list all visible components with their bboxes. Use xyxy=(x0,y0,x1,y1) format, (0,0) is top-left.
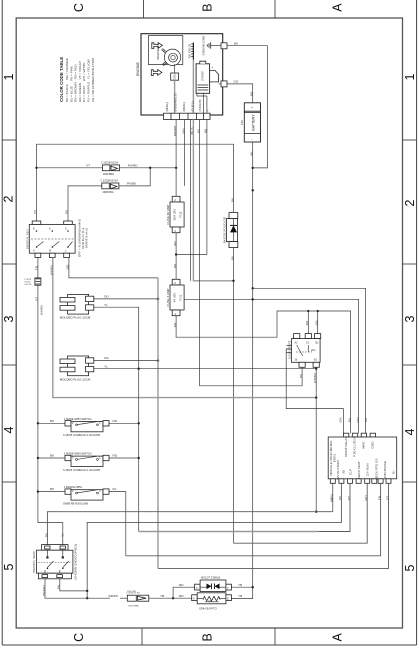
engine drop wire MAG gray to diode corner xyxy=(190,120,233,281)
svg-text:4: 4 xyxy=(2,426,16,433)
svg-text:RD: RD xyxy=(179,594,184,598)
svg-text:5: 5 xyxy=(403,564,417,571)
module pin5 drop to y543.2 line to PTO pin1 xyxy=(234,483,369,543)
svg-text:S 284 B OUABUAO 2 HOLIVAB: S 284 B OUABUAO 2 HOLIVAB xyxy=(63,433,100,437)
svg-text:FU2: FU2 xyxy=(179,211,183,217)
wire VT from key to fuse link 1 xyxy=(37,163,103,167)
svg-text:G: G xyxy=(33,250,35,253)
svg-text:OD4 Y8RD: OD4 Y8RD xyxy=(128,606,139,608)
fuse link connector 2 xyxy=(101,179,119,194)
svg-text:B+: B+ xyxy=(392,470,396,474)
svg-text:C 3222B-NC/S4: C 3222B-NC/S4 xyxy=(101,179,119,182)
seat bottom pin3 wire to bottom harness xyxy=(42,579,110,598)
svg-text:BU: BU xyxy=(299,374,303,378)
svg-text:A: A xyxy=(330,632,344,641)
svg-text:NECK PTO GS: NECK PTO GS xyxy=(374,458,378,479)
svg-text:(SHOWN UNOCCUPIED): (SHOWN UNOCCUPIED) xyxy=(73,544,77,580)
svg-text:BK S: BK S xyxy=(190,127,194,134)
wire BK bus to module top pin 4 xyxy=(253,288,366,433)
plug2 YL wire junction to bus 138.7 xyxy=(94,364,318,370)
block arrow top xyxy=(152,43,163,49)
interlock switch SW3 xyxy=(38,485,126,556)
svg-text:RD: RD xyxy=(173,322,177,327)
svg-text:YB: YB xyxy=(238,583,242,587)
wire fuse2 bottom to PTO switch top pins via arch xyxy=(173,310,351,433)
svg-text:(MAG): (MAG) xyxy=(165,102,169,111)
fuse F2 4A xyxy=(166,279,184,316)
svg-text:12V: 12V xyxy=(240,119,244,125)
wire comb down (gray) xyxy=(192,60,194,114)
svg-text:SWITCH, SEAT: SWITCH, SEAT xyxy=(32,551,36,573)
svg-text:SW88 RB R2VOLINB: SW88 RB R2VOLINB xyxy=(63,502,88,506)
bus 138.7 down to nested line xyxy=(138,369,140,532)
seat switch top wire labels xyxy=(44,532,64,537)
svg-text:WH/BU: WH/BU xyxy=(50,265,54,275)
wire fuse2 side to module top pin 1 xyxy=(184,298,359,433)
svg-text:C: C xyxy=(72,3,86,12)
color code table xyxy=(59,57,95,102)
svg-text:MOLDED PLUG 12CM: MOLDED PLUG 12CM xyxy=(60,316,91,320)
svg-text:START B+A+S: START B+A+S xyxy=(85,228,89,248)
svg-text:(START): (START) xyxy=(198,100,202,112)
svg-text:A: A xyxy=(330,3,344,12)
svg-text:1 BRAKE N854: 1 BRAKE N854 xyxy=(64,485,82,489)
svg-text:TN: TN xyxy=(377,496,381,500)
svg-text:ENGINE: ENGINE xyxy=(136,62,140,76)
svg-text:W: W xyxy=(61,533,65,536)
svg-text:(REG/RECT): (REG/RECT) xyxy=(174,93,178,111)
plug1 OG wire to gray bus xyxy=(94,295,158,299)
svg-text:C 3270 VT 84: C 3270 VT 84 xyxy=(126,593,140,595)
svg-text:PK/BK: PK/BK xyxy=(127,182,137,186)
svg-text:M: M xyxy=(49,250,51,253)
svg-text:(S) = NO CONNECTION 2Y8Z8: (S) = NO CONNECTION 2Y8Z8 xyxy=(91,58,95,102)
svg-text:CLP: CLP xyxy=(349,469,353,475)
svg-text:WH: WH xyxy=(356,417,360,422)
wire OG from key bottom to gray bus 158 xyxy=(66,258,158,278)
battery xyxy=(240,103,260,142)
svg-text:NECK SEAT: NECK SEAT xyxy=(357,461,361,478)
module pin3 drop to y531.5 line to bus 138.7 xyxy=(139,483,351,531)
svg-text:RD: RD xyxy=(113,454,118,458)
bottom harness wire RD/PK with connector xyxy=(109,591,175,608)
module box xyxy=(328,433,397,483)
svg-text:MOLDED PLUG 12CM: MOLDED PLUG 12CM xyxy=(60,377,91,381)
svg-text:MOLDT 3'280LB: MOLDT 3'280LB xyxy=(201,576,220,580)
svg-text:12V RUN: 12V RUN xyxy=(366,463,370,476)
svg-text:1 MADE N854 SWITCH: 1 MADE N854 SWITCH xyxy=(64,452,92,456)
svg-text:FU1: FU1 xyxy=(179,294,183,300)
svg-text:V: V xyxy=(193,597,195,601)
svg-text:WH/BU: WH/BU xyxy=(313,373,317,383)
svg-text:GND BRAKE: GND BRAKE xyxy=(383,461,387,479)
fuse link connector 1 xyxy=(101,161,120,176)
svg-text:(MAG): (MAG) xyxy=(182,102,186,111)
svg-text:WH: WH xyxy=(181,128,185,133)
key switch xyxy=(25,221,75,258)
svg-text:12V IN START: 12V IN START xyxy=(336,460,340,480)
solenoid coil xyxy=(192,593,232,611)
engine bottom connector strip xyxy=(164,113,211,119)
svg-text:ENGINE GND: ENGINE GND xyxy=(202,35,206,55)
svg-text:2: 2 xyxy=(403,199,417,206)
svg-text:RL: RL xyxy=(113,487,117,491)
interlock switch SW1 xyxy=(38,417,139,437)
svg-text:VT: VT xyxy=(33,210,37,214)
svg-text:RD/PK: RD/PK xyxy=(109,594,119,598)
plug1 YL wire to bus 138.7 xyxy=(94,303,139,369)
engine drop wire RD to fuse jog xyxy=(204,120,208,255)
svg-text:VT: VT xyxy=(385,496,389,500)
svg-text:OD4/YB 8 PTO: OD4/YB 8 PTO xyxy=(199,606,217,610)
svg-text:START: START xyxy=(201,71,205,81)
wire TN from key bottom via inline connector to interlock bus xyxy=(35,258,63,545)
svg-text:E: E xyxy=(227,597,229,601)
ignition coil box xyxy=(171,73,179,81)
engine drop wire RD/WH to fuse 1 xyxy=(173,120,177,197)
plug2 OG wire to gray bus xyxy=(94,356,158,360)
svg-text:RD: RD xyxy=(173,263,177,268)
svg-text:WH/BU: WH/BU xyxy=(40,305,44,315)
svg-text:+: + xyxy=(251,106,253,110)
solenoid left feed wires xyxy=(173,583,195,598)
svg-text:OG: OG xyxy=(104,295,109,299)
svg-text:Y: Y xyxy=(227,586,229,590)
svg-text:VT: VT xyxy=(35,297,39,301)
flywheel circles xyxy=(164,49,180,65)
fuse F1 30A xyxy=(166,196,184,233)
module pin7 drop to y555.8 line to SW3 xyxy=(126,483,382,556)
wire fuse link 2 to WH line xyxy=(119,167,151,186)
svg-text:RD: RD xyxy=(173,241,177,246)
svg-text:RD: RD xyxy=(249,91,253,96)
svg-text:BK/WH: BK/WH xyxy=(42,585,46,595)
svg-text:BU: BU xyxy=(347,418,351,422)
svg-text:RD: RD xyxy=(305,320,309,325)
PTO bottom pin1 wire label xyxy=(299,374,303,378)
block arrow bottom xyxy=(151,70,162,76)
svg-text:S 284 B OUABUAO 2 HOLIVAB: S 284 B OUABUAO 2 HOLIVAB xyxy=(63,468,100,472)
wire diode bottom to PTO arch xyxy=(230,248,234,544)
starter wire inside engine xyxy=(203,93,205,113)
svg-text:PK/RD: PK/RD xyxy=(128,163,138,167)
PTO start switch xyxy=(286,334,343,434)
svg-text:ODC 8L: ODC 8L xyxy=(25,284,33,286)
svg-text:MAG: MAG xyxy=(362,441,366,449)
svg-text:C 3222B-NC/S4: C 3222B-NC/S4 xyxy=(101,161,119,164)
svg-text:5: 5 xyxy=(2,563,16,570)
svg-text:RD/WH: RD/WH xyxy=(173,126,177,136)
molded plug 1 xyxy=(60,294,94,319)
molded plug 2 xyxy=(60,356,94,381)
svg-text:[A1]: [A1] xyxy=(311,349,316,352)
wire coil to engine connector xyxy=(174,64,176,73)
svg-text:RD: RD xyxy=(179,583,184,587)
gray bus 158 vertical xyxy=(157,278,160,569)
wire key switch to diode module top (BK loop) xyxy=(33,144,234,221)
svg-text:BATTERY: BATTERY xyxy=(251,114,255,131)
engine ground symbol xyxy=(202,35,217,55)
engine drop wire BU to module top pin xyxy=(196,120,302,386)
svg-text:GY: GY xyxy=(347,496,351,500)
interlock switch SW2 xyxy=(38,452,139,472)
svg-text:RD: RD xyxy=(204,128,208,133)
svg-text:ODC 68L: ODC 68L xyxy=(127,591,137,593)
svg-text:OG: OG xyxy=(66,264,70,269)
magneto box inside engine xyxy=(148,36,182,65)
wire PK from key top to fuse link 2 xyxy=(65,186,102,221)
svg-text:S.GW.START: S.GW.START xyxy=(288,340,292,359)
engine box xyxy=(136,34,223,115)
battery minus BK bus down xyxy=(250,142,254,587)
svg-text:YB: YB xyxy=(160,594,164,598)
flywheel keyway marks xyxy=(162,49,167,66)
svg-text:1 MADE N854 SWITCH: 1 MADE N854 SWITCH xyxy=(64,417,92,421)
svg-text:TN: TN xyxy=(35,266,39,270)
engine right stub RD (starter +) xyxy=(219,81,227,87)
svg-text:RD: RD xyxy=(113,419,118,423)
nested line y511.7 seat pin1 to module pin1 xyxy=(47,512,332,545)
svg-text:WH: WH xyxy=(364,495,368,500)
engine connector pin labels xyxy=(165,93,210,111)
svg-text:3: 3 xyxy=(2,315,16,322)
inline connector on TN wire xyxy=(25,278,41,286)
svg-text:YB: YB xyxy=(238,594,242,598)
magneto comb connector xyxy=(188,43,194,60)
seat bottom pin4 wire to pin2-drop vertical xyxy=(57,579,89,592)
svg-text:BU: BU xyxy=(196,129,200,133)
solenoid diode assembly xyxy=(195,576,232,597)
svg-text:VT: VT xyxy=(86,163,90,167)
svg-text:(FUEL): (FUEL) xyxy=(191,102,195,112)
svg-text:GN: GN xyxy=(315,321,319,326)
PTO bottom pin2 wire to module hook xyxy=(313,367,317,513)
svg-text:M/BU: M/BU xyxy=(330,494,334,502)
wire fuse link 1 to RD/WH line xyxy=(120,163,178,169)
wire starter + to battery + (label RD) xyxy=(227,80,253,103)
svg-text:2: 2 xyxy=(2,195,16,202)
svg-text:C: C xyxy=(72,633,86,642)
svg-text:SWITCH, KEY: SWITCH, KEY xyxy=(25,229,29,249)
svg-text:START RELAY: START RELAY xyxy=(344,437,348,458)
svg-text:YL: YL xyxy=(104,364,108,368)
module pin2 drop to y522.4 line xyxy=(86,483,342,599)
svg-text:OG: OG xyxy=(234,80,239,84)
svg-text:+: + xyxy=(206,110,210,112)
wire WH/BU from key bottom gray to bus 158 xyxy=(50,258,318,399)
wire fuse1 bottom to jog and fuse2 xyxy=(173,233,207,280)
diode module xyxy=(223,213,238,248)
engine drop wire WH xyxy=(181,120,190,281)
svg-text:30A 32V: 30A 32V xyxy=(173,208,177,221)
svg-text:COIL: COIL xyxy=(173,73,177,81)
solenoid right wires to BK bus xyxy=(231,583,254,599)
svg-text:FUSE 4 AMP: FUSE 4 AMP xyxy=(166,288,170,306)
starter terminal bracket xyxy=(210,71,219,82)
engine right stub BK (ground lug) xyxy=(216,43,227,49)
module top wire labels xyxy=(339,417,369,423)
module pin8 drop to y568.4 line to gray bus 158 xyxy=(158,483,389,568)
svg-text:YL: YL xyxy=(104,303,108,307)
svg-text:OG: OG xyxy=(104,356,109,360)
svg-text:4MM BRG: 4MM BRG xyxy=(103,191,114,194)
svg-text:BK SOLID: BK SOLID xyxy=(188,43,192,58)
svg-text:4: 4 xyxy=(403,428,417,435)
svg-text:1: 1 xyxy=(2,73,16,80)
svg-text:COLOR CODE TABLE: COLOR CODE TABLE xyxy=(59,57,64,102)
module pin1 hook wire to PTO/seat line xyxy=(330,483,334,511)
svg-text:GN: GN xyxy=(339,418,343,423)
key switch position note xyxy=(78,218,89,257)
seat switch xyxy=(32,544,77,580)
svg-text:B: B xyxy=(201,633,215,641)
svg-text:B: B xyxy=(201,3,215,11)
svg-text:+: + xyxy=(211,66,213,70)
svg-text:4MM BRG: 4MM BRG xyxy=(103,173,114,176)
svg-text:MAGNETO: MAGNETO xyxy=(156,44,160,60)
svg-text:GND: GND xyxy=(371,441,375,449)
svg-text:3: 3 xyxy=(403,315,417,322)
wire engine gnd stub to BK bus junction (label BK) xyxy=(227,41,267,168)
svg-text:PTO CLUTCH: PTO CLUTCH xyxy=(353,437,357,457)
svg-text:BK/C05 SOLID OG: BK/C05 SOLID OG xyxy=(223,216,227,243)
starter motor xyxy=(196,61,213,93)
svg-text:1: 1 xyxy=(403,73,417,80)
svg-text:FUSE 30 AMP: FUSE 30 AMP xyxy=(166,205,170,225)
svg-text:4A 32V: 4A 32V xyxy=(173,292,177,303)
